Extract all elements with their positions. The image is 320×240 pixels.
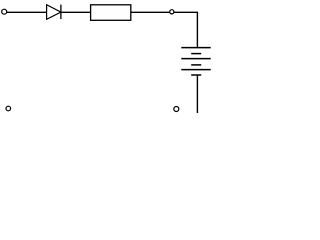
diode D1 [47,5,61,20]
terminal (bottom-left) [6,106,11,111]
wire [196,12,198,47]
battery B1 plate short 1 [191,53,201,55]
battery B1 [181,48,210,75]
diode D1 cathode bar [60,5,62,20]
resistor R1 [91,5,131,20]
battery B1 plate long 1 [181,47,210,49]
wire [131,11,170,13]
wire [7,11,47,13]
terminal (top-left) [2,9,7,14]
battery B1 plate short 2 [191,64,201,66]
wire [196,75,198,113]
wire [61,11,91,13]
battery B1 plate long 2 [181,58,210,60]
battery B1 plate short 3 [191,74,201,76]
wire [174,11,198,13]
node (junction terminal) [170,10,174,14]
battery B1 plate long 3 [181,69,210,71]
terminal (bottom-right) [174,107,179,112]
